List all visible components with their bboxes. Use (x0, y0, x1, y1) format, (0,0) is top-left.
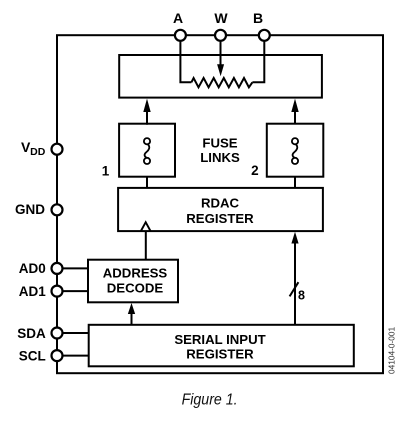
terminal SCL (19, 348, 63, 363)
svg-text:GND: GND (15, 202, 45, 217)
bus width label 8 (298, 288, 305, 302)
wiper arrow from W (217, 41, 224, 76)
svg-text:8: 8 (298, 288, 305, 302)
wire fuse1 up to resistor box (arrow) (143, 99, 150, 125)
part code 04104-0-001 (387, 327, 397, 374)
svg-text:SDA: SDA (17, 326, 46, 341)
wire fuse2 up to resistor box (arrow) (291, 99, 298, 124)
figure caption (182, 391, 238, 408)
wire SDA to serial input register (63, 332, 89, 334)
RDAC register box (118, 188, 323, 231)
svg-text:SERIAL INPUT: SERIAL INPUT (174, 332, 265, 347)
wire fuse1 down to RDAC (146, 177, 148, 189)
chip outline (57, 35, 383, 373)
svg-text:DD: DD (30, 146, 46, 158)
svg-text:REGISTER: REGISTER (186, 211, 254, 226)
svg-text:ADDRESS: ADDRESS (103, 265, 168, 280)
bus serial to RDAC (arrow) (291, 232, 298, 325)
svg-text:SCL: SCL (19, 348, 46, 363)
FUSE LINKS label (200, 135, 240, 165)
svg-text:1: 1 (102, 164, 110, 179)
svg-text:RDAC: RDAC (201, 196, 240, 211)
wire clock to address decode (145, 231, 147, 260)
wire AD1 to address decode (63, 290, 89, 292)
svg-text:AD0: AD0 (19, 261, 46, 276)
terminal W (214, 10, 228, 41)
svg-text:B: B (253, 10, 263, 26)
svg-text:W: W (214, 10, 228, 26)
svg-text:AD1: AD1 (19, 284, 46, 299)
svg-text:A: A (173, 10, 183, 26)
terminal VDD (21, 139, 63, 158)
address decode box (88, 260, 178, 303)
fuse link box 2 (267, 124, 324, 177)
svg-text:DECODE: DECODE (107, 280, 164, 295)
fuse symbol 2 (292, 138, 298, 164)
pin label 1 (102, 164, 110, 179)
serial input register box (89, 325, 354, 367)
svg-text:04104-0-001: 04104-0-001 (387, 327, 397, 374)
svg-text:Figure 1.: Figure 1. (182, 391, 238, 408)
fuse symbol 1 (144, 138, 150, 164)
wire fuse2 down to RDAC (294, 177, 296, 189)
terminal AD0 (19, 261, 63, 276)
pin label 2 (251, 163, 259, 178)
terminal SDA (17, 326, 62, 341)
wire SCL to serial input register (63, 355, 89, 357)
svg-text:FUSE: FUSE (202, 135, 237, 150)
resistor array box (119, 55, 322, 98)
svg-text:LINKS: LINKS (200, 150, 240, 165)
terminal B (253, 10, 270, 41)
fuse link box 1 (119, 124, 175, 177)
wire B to resistor (252, 41, 264, 82)
svg-text:2: 2 (251, 163, 259, 178)
svg-text:REGISTER: REGISTER (186, 346, 254, 361)
terminal GND (15, 202, 63, 217)
wire AD0 to address decode (63, 267, 89, 269)
wire serial input to address decode (arrow) (128, 303, 135, 325)
clock input triangle on RDAC (141, 222, 151, 231)
terminal A (173, 10, 186, 41)
terminal AD1 (19, 284, 63, 299)
wire A to resistor (180, 41, 191, 82)
resistor R (zigzag) (191, 78, 252, 87)
bus width slash (290, 282, 299, 296)
